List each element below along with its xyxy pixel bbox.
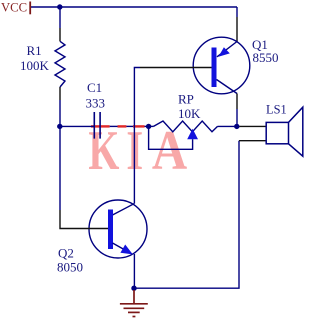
node: C1 / RP / wiper junction	[146, 124, 151, 129]
speaker LS1 horn	[289, 107, 303, 156]
ground	[120, 290, 148, 317]
potentiometer RP zigzag	[154, 121, 218, 132]
transistor Q1 base bar	[212, 48, 217, 88]
svg-text:C1: C1	[87, 80, 102, 95]
transistor Q2 emitter diagonal	[113, 243, 132, 254]
svg-text:8550: 8550	[253, 50, 279, 65]
svg-text:10K: 10K	[178, 106, 201, 121]
svg-text:LS1: LS1	[266, 103, 287, 117]
RP wiper arrow	[187, 129, 198, 140]
svg-text:333: 333	[86, 96, 106, 111]
svg-text:RP: RP	[178, 92, 194, 107]
pin: LS1 bottom (black)	[239, 140, 266, 142]
transistor Q1 body circle	[193, 37, 250, 94]
svg-text:K: K	[88, 120, 119, 182]
watermark red line	[91, 125, 145, 127]
resistor R1	[55, 41, 65, 87]
transistor Q1 collector diagonal	[217, 80, 238, 94]
svg-text:VCC: VCC	[1, 0, 27, 14]
node: ground junction	[131, 286, 136, 291]
pin: Q2 base (black)	[60, 210, 108, 229]
wire: Q1 collector to node	[236, 109, 238, 126]
transistor Q2 collector diagonal	[113, 204, 135, 216]
speaker LS1 box	[266, 122, 288, 143]
pin: LS1 top (black)	[240, 125, 267, 127]
pin: Q1 collector (black)	[236, 94, 238, 110]
pin: Q1 emitter (black)	[236, 17, 238, 42]
svg-text:8050: 8050	[57, 260, 83, 275]
pin: R1 pin 1 (black)	[59, 28, 61, 41]
wire: R1 bottom lead to node	[59, 100, 61, 126]
wire: Q2 base from left rail	[59, 126, 61, 210]
wire: Q1 emitter from rail	[236, 7, 238, 17]
transistor Q2 base bar	[108, 210, 113, 250]
wire: RP wiper loop	[149, 126, 193, 149]
wire: RP right lead	[218, 125, 237, 127]
capacitor C1	[94, 112, 100, 139]
pin: Q1 base (black)	[140, 67, 212, 69]
wire: node to C1 left plate	[60, 125, 94, 127]
VCC port tick	[29, 2, 31, 15]
svg-text:R1: R1	[27, 43, 42, 58]
wire: R1 top lead	[59, 7, 61, 28]
svg-text:Q2: Q2	[58, 246, 74, 261]
node: Q1 collector / RP / LS1 junction	[234, 124, 239, 129]
transistor Q1 emitter arrow (PNP)	[218, 47, 229, 57]
transistor Q1 emitter diagonal	[217, 42, 237, 57]
transistor Q2 emitter arrow (NPN)	[120, 245, 132, 255]
node: top rail / R1 junction	[57, 4, 62, 9]
svg-text:100K: 100K	[20, 58, 50, 73]
wire: bottom rail to speaker return	[134, 141, 239, 289]
wire: RP left lead	[149, 125, 154, 127]
wire: C1 right plate to RP node (visible between red dashes)	[110, 125, 149, 127]
node: R1 / C1 / Q2-base junction	[57, 124, 62, 129]
wire: Q2 emitter down	[133, 254, 135, 288]
watermark KIA	[88, 120, 187, 182]
wire: VCC top rail	[31, 6, 238, 8]
pin: R1 pin 2 (black)	[59, 87, 61, 100]
wire: Q1 base to Q2 collector vertical	[134, 68, 140, 204]
transistor Q2 body circle	[89, 200, 147, 258]
